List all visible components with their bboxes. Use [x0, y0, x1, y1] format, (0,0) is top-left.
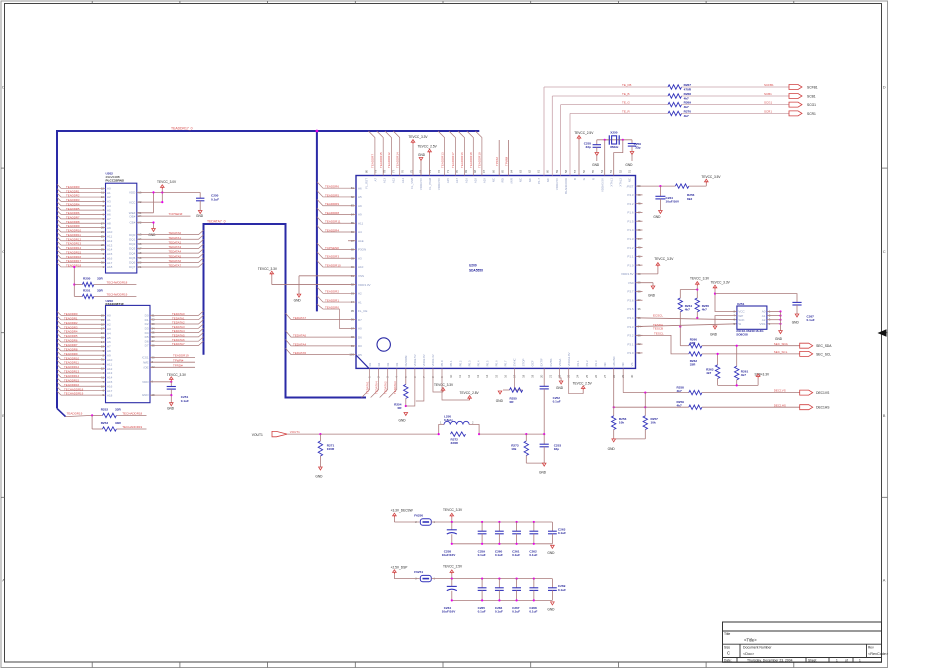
power TEVCC_3.3V left of U200: [258, 267, 356, 285]
svg-text:16: 16: [503, 374, 507, 378]
svg-text:TEVCC_3.3V: TEVCC_3.3V: [167, 373, 187, 377]
wire TEVCC_2.5V ground bus: [451, 599, 553, 601]
svg-text:P3.5: P3.5: [627, 307, 634, 311]
svg-text:TEADDR4: TEADDR4: [325, 228, 339, 232]
svg-text:TEDATA5: TEDATA5: [293, 351, 306, 355]
svg-text:P1.3: P1.3: [627, 237, 634, 241]
U200 bottom pin names and numbers: [368, 352, 635, 378]
svg-text:D6: D6: [358, 335, 362, 339]
U200 top address wires group1: [368, 131, 399, 176]
svg-text:10: 10: [449, 374, 453, 378]
power TEVCC_3.3V pin40: [654, 257, 674, 267]
ground TEVCC_3.3V bank: [547, 545, 555, 555]
title block frame: [723, 622, 882, 662]
svg-text:TECHADDR19: TECHADDR19: [122, 425, 142, 429]
U203 address wires from bus: [57, 311, 106, 395]
svg-text:0.1uF: 0.1uF: [553, 399, 561, 403]
wire riser pin28: [613, 368, 615, 415]
wire SYNC to R255: [514, 368, 522, 390]
net label TE_FB: [622, 83, 631, 87]
U200 bottom data wires to bus: [362, 368, 397, 397]
svg-text:Size: Size: [724, 646, 730, 650]
svg-text:A16: A16: [464, 178, 468, 184]
svg-text:A13: A13: [107, 371, 113, 375]
svg-text:4k7: 4k7: [702, 307, 707, 311]
svg-text:/RST: /RST: [627, 184, 634, 188]
svg-text:HSUSC: HSUSC: [612, 356, 616, 366]
capacitor C260: [495, 522, 504, 557]
connector DEC1HS: [800, 405, 831, 410]
svg-text:GND: GND: [608, 447, 616, 451]
eeprom U251 body: [737, 306, 767, 329]
ground below C255: [592, 153, 600, 168]
wire branch to R253: [92, 415, 102, 429]
svg-text:DEC1HS: DEC1HS: [816, 406, 830, 410]
capacitor C264 reset: [655, 186, 680, 210]
resistor R273: [511, 434, 528, 463]
svg-text:TEDATA7: TEDATA7: [169, 264, 182, 268]
bus TEDATA vertical right: [285, 223, 287, 398]
svg-text:A18: A18: [473, 178, 477, 184]
svg-text:X250: X250: [610, 130, 618, 134]
wire R273 C253 common: [526, 462, 544, 464]
svg-text:0.1uF: 0.1uF: [558, 531, 566, 535]
svg-text:A12: A12: [392, 178, 396, 184]
ASIC U200 body: [356, 176, 636, 369]
power TEVCC_3.0V at U202: [157, 180, 177, 192]
svg-text:58: 58: [564, 169, 568, 173]
svg-text:P0.5: P0.5: [485, 360, 489, 366]
svg-text:DQ7: DQ7: [129, 265, 136, 269]
resistor R264 pullup: [678, 290, 692, 327]
U251 part number text: [736, 329, 764, 336]
svg-text:GND: GND: [592, 163, 600, 167]
svg-text:A3: A3: [107, 327, 111, 331]
svg-text:Title: Title: [724, 632, 730, 636]
net label TE_R: [622, 109, 631, 113]
U202 CE wire to ground: [137, 221, 156, 237]
svg-text:GND: GND: [496, 399, 504, 403]
capacitor C269: [548, 579, 566, 601]
svg-text:4k7: 4k7: [677, 389, 682, 393]
svg-text:95: 95: [351, 309, 355, 313]
svg-text:P0.0: P0.0: [440, 360, 444, 366]
svg-text:TESCB: TESCB: [653, 327, 663, 331]
wire TESCL from pin33: [636, 335, 689, 354]
svg-text:GND: GND: [710, 333, 718, 337]
svg-text:TESCL: TESCL: [654, 332, 664, 336]
net label TE_G: [622, 101, 631, 105]
svg-text:TEVCC_3.3V: TEVCC_3.3V: [258, 267, 278, 271]
svg-text:D7: D7: [358, 318, 362, 322]
svg-text:D: D: [883, 85, 886, 90]
svg-text:VDDA2.8V: VDDA2.8V: [567, 352, 571, 366]
ground above U200: [418, 153, 426, 175]
wire /RST row: [636, 185, 676, 187]
svg-text:DEC1VS: DEC1VS: [816, 391, 830, 395]
svg-text:D5: D5: [358, 353, 362, 357]
capacitor C261: [512, 522, 521, 557]
wire TE_R row: [570, 112, 668, 114]
svg-text:P2.2: P2.2: [585, 360, 589, 366]
capacitor C262: [529, 522, 538, 557]
svg-text:TE_B: TE_B: [622, 92, 630, 96]
svg-text:A4: A4: [107, 331, 111, 335]
svg-text:TEDATA3: TEDATA3: [169, 245, 182, 249]
svg-text:A9: A9: [107, 353, 111, 357]
svg-text:NVROM: NVROM: [404, 355, 408, 366]
U200 wire TEADDR2: [317, 287, 356, 294]
svg-text:A0: A0: [358, 327, 362, 331]
svg-text:470R: 470R: [684, 87, 692, 91]
svg-text:TEADDR8: TEADDR8: [325, 211, 339, 215]
svg-text:A: A: [2, 578, 5, 583]
svg-text:<Title>: <Title>: [744, 638, 757, 643]
svg-text:TEADDR15: TEADDR15: [379, 152, 383, 168]
U200 data wires from TEDATA bus: [286, 313, 357, 355]
svg-text:VDDA3.5V: VDDA3.5V: [600, 178, 604, 192]
svg-text:TE_G: TE_G: [622, 101, 631, 105]
capacitor C251: [167, 382, 189, 403]
svg-text:CVBS: CVBS: [549, 358, 553, 366]
svg-text:53: 53: [609, 169, 613, 173]
U200 wire TPF6#: [495, 140, 499, 176]
resistor R253: [101, 421, 147, 431]
svg-text:P3.7: P3.7: [627, 290, 634, 294]
U203 data wires to bus: [150, 311, 204, 346]
svg-text:VDD2.5V: VDD2.5V: [413, 354, 417, 366]
riser TE_FB: [543, 87, 545, 176]
svg-text:TEDATA1: TEDATA1: [169, 236, 182, 240]
svg-text:4k7: 4k7: [741, 373, 746, 377]
svg-text:DQ4: DQ4: [129, 251, 136, 255]
svg-text:0.1uF: 0.1uF: [529, 610, 537, 614]
U200 index circle: [377, 338, 390, 351]
bus TEADDR vertical left: [56, 130, 58, 408]
svg-text:51: 51: [627, 169, 631, 173]
svg-text:33p: 33p: [635, 146, 640, 150]
svg-text:20: 20: [540, 374, 544, 378]
svg-text:A12: A12: [107, 367, 113, 371]
svg-text:4k7: 4k7: [684, 114, 689, 118]
wire branch A18 to R250 R251: [73, 266, 75, 297]
svg-text:GND: GND: [547, 551, 555, 555]
capacitor C268: [529, 579, 538, 614]
svg-text:R270: R270: [684, 109, 692, 113]
svg-text:0.1uF: 0.1uF: [478, 553, 486, 557]
svg-text:VDD3.5V: VDD3.5V: [555, 178, 559, 190]
svg-text:P3.1: P3.1: [627, 342, 634, 346]
svg-text:TEADDR1: TEADDR1: [325, 298, 339, 302]
capacitor C253: [540, 434, 562, 463]
power TEVCC_3.3V above U200: [408, 135, 428, 175]
U200 bottom data labels: [366, 381, 397, 394]
svg-text:A9: A9: [358, 213, 362, 217]
ground pin39: [648, 286, 656, 298]
resistor R271: [318, 434, 335, 467]
svg-text:55: 55: [591, 169, 595, 173]
svg-text:A17: A17: [107, 389, 113, 393]
svg-text:33R: 33R: [690, 341, 696, 345]
svg-text:P0.7: P0.7: [504, 360, 508, 366]
svg-text:P2.1: P2.1: [576, 360, 580, 366]
svg-text:NC: NC: [628, 178, 632, 182]
resistor R256 reset: [675, 184, 706, 201]
svg-text:64: 64: [509, 169, 513, 173]
svg-text:VSS: VSS: [358, 274, 364, 278]
svg-text:P4.3: P4.3: [627, 193, 634, 197]
svg-text:D4: D4: [377, 362, 381, 366]
connector SCG1: [789, 102, 816, 107]
U203 WE wire: [150, 358, 195, 362]
svg-text:P1.4: P1.4: [627, 228, 634, 232]
svg-text:11: 11: [458, 375, 462, 378]
svg-text:77: 77: [392, 169, 396, 173]
U202 data wires DQ0-DQ7 to bus: [137, 230, 204, 267]
U203 right data pin names: [145, 313, 155, 347]
svg-text:PLCC32RNS: PLCC32RNS: [106, 178, 124, 182]
resistor R269: [668, 101, 789, 109]
bus TEDATA horizontal bottom: [285, 397, 367, 399]
svg-text:GND: GND: [547, 608, 555, 612]
power TEVCC_2.5V above U200: [418, 145, 438, 176]
svg-text:+2.5V_DSP: +2.5V_DSP: [391, 565, 408, 569]
svg-text:33R: 33R: [115, 408, 121, 412]
svg-text:A9: A9: [358, 204, 362, 208]
power +2.5V_DSP arrow: [391, 565, 420, 578]
svg-text:FL_PGM: FL_PGM: [428, 177, 432, 189]
svg-text:63: 63: [518, 169, 522, 173]
svg-text:12: 12: [467, 374, 471, 378]
svg-text:R267: R267: [684, 83, 692, 87]
wire riser pin29 to DEC1VS: [622, 368, 624, 392]
svg-text:SEC_SDA: SEC_SDA: [774, 342, 788, 346]
svg-text:F6250: F6250: [414, 513, 423, 517]
svg-text:15: 15: [494, 374, 498, 378]
svg-text:P2.3: P2.3: [594, 360, 598, 366]
svg-text:TEADDR19: TEADDR19: [478, 152, 482, 168]
U203 net labels: [64, 312, 84, 396]
svg-text:SDA555X: SDA555X: [469, 269, 484, 273]
bus TEADDR17_0 horizontal top: [57, 130, 479, 132]
resistor R262: [689, 352, 800, 367]
svg-text:R250: R250: [83, 276, 91, 280]
svg-text:VS: VS: [630, 362, 634, 366]
svg-text:/RD: /RD: [501, 178, 505, 183]
U203 GND wire: [150, 394, 171, 396]
svg-text:STOP: STOP: [522, 359, 526, 367]
ground below R271: [315, 467, 323, 478]
svg-text:SEC_SCL: SEC_SCL: [816, 352, 831, 356]
svg-text:TEVCC_3.3V: TEVCC_3.3V: [711, 280, 731, 284]
svg-text:TEADDR13: TEADDR13: [64, 370, 79, 374]
U200 top address labels group1: [371, 152, 400, 168]
power +3.3V_DECSW arrow: [391, 509, 420, 522]
U203 pin names A0-A18: [101, 313, 113, 397]
svg-text:0.1uF: 0.1uF: [495, 553, 503, 557]
svg-text:VSSA: VSSA: [558, 359, 562, 367]
svg-text:TEADDR3: TEADDR3: [325, 255, 339, 259]
connector SEC_SCL: [800, 351, 832, 356]
U200 left address wires: [317, 182, 356, 267]
U200 right pin names and numbers: [621, 184, 641, 355]
svg-text:TEADDR10: TEADDR10: [325, 263, 341, 267]
svg-text:A13: A13: [383, 178, 387, 184]
svg-text:10uF/16V: 10uF/16V: [442, 610, 457, 614]
svg-text:TEDATA0: TEDATA0: [169, 231, 182, 235]
svg-text:72: 72: [437, 169, 441, 173]
svg-text:FL_CE: FL_CE: [358, 309, 367, 313]
svg-text:A1: A1: [107, 318, 111, 322]
U200 top pin names and numbers: [364, 169, 631, 193]
svg-text:24: 24: [576, 374, 580, 378]
svg-text:ALE: ALE: [358, 239, 364, 243]
svg-text:TECHWDDR18: TECHWDDR18: [107, 280, 128, 284]
svg-text:TEVCC_3.3V: TEVCC_3.3V: [654, 257, 674, 261]
svg-text:P0.4: P0.4: [476, 360, 480, 366]
svg-text:TECHWDDR19: TECHWDDR19: [107, 292, 128, 296]
svg-text:TEDATA7_0: TEDATA7_0: [207, 219, 226, 223]
svg-text:TECHADDR18: TECHADDR18: [122, 411, 142, 415]
svg-text:B: B: [883, 413, 886, 418]
svg-text:A7: A7: [107, 345, 111, 349]
svg-text:P1.0: P1.0: [627, 263, 634, 267]
resistor R270: [668, 109, 789, 117]
svg-text:8k2: 8k2: [687, 197, 692, 201]
U203 data net labels: [172, 312, 185, 346]
border zone ticks top and bottom: [92, 1, 794, 668]
svg-text:A16: A16: [107, 384, 113, 388]
svg-text:TEADDR10: TEADDR10: [64, 356, 79, 360]
svg-text:R268: R268: [684, 92, 692, 96]
capacitor C255: [584, 140, 601, 153]
net label TE_B: [622, 92, 630, 96]
resistor R254: [394, 368, 408, 410]
power TEVCC_3.5V reset: [701, 175, 721, 186]
svg-text:ECSCL: ECSCL: [653, 314, 663, 318]
svg-text:/WE: /WE: [143, 360, 149, 364]
wire TE_G row: [561, 104, 668, 106]
svg-text:TFWR#: TFWR#: [173, 358, 184, 362]
resistor R250: [74, 276, 136, 286]
wire SDA chain: [680, 327, 689, 346]
svg-text:A17: A17: [455, 178, 459, 184]
ground below R256 R257: [608, 439, 616, 451]
U203 CS wire: [150, 354, 195, 358]
U203 VDD wire: [150, 381, 172, 383]
svg-text:A14: A14: [107, 376, 113, 380]
svg-text:VDD: VDD: [129, 191, 136, 195]
svg-text:6.8uH: 6.8uH: [444, 418, 453, 422]
wire pullup rail: [680, 288, 698, 290]
svg-text:SCFB1: SCFB1: [764, 83, 774, 87]
svg-text:71: 71: [446, 169, 450, 173]
svg-text:VOUT1: VOUT1: [252, 433, 263, 437]
svg-text:NC: NC: [528, 178, 532, 182]
svg-text:TEADDR3: TEADDR3: [64, 325, 78, 329]
crystal X250: [605, 130, 623, 149]
net label TECHWDDR19: [107, 292, 128, 296]
svg-text:36: 36: [638, 307, 642, 311]
net label VOUT1 red: [290, 430, 300, 434]
svg-text:0.1uF: 0.1uF: [512, 610, 520, 614]
svg-text:TECHADDR18: TECHADDR18: [64, 387, 84, 391]
svg-text:SEC_SCL: SEC_SCL: [774, 350, 788, 354]
U200 wire TEADDR1: [317, 296, 356, 303]
svg-text:SYNC: SYNC: [513, 358, 517, 366]
svg-text:NC: NC: [546, 178, 550, 182]
ground TEVCC_2.5V bank: [547, 602, 555, 612]
svg-text:NC: NC: [621, 362, 625, 366]
net label SCFB1 red: [764, 83, 774, 87]
svg-text:A11: A11: [358, 221, 363, 225]
svg-text:of: of: [845, 658, 848, 662]
svg-text:R252: R252: [101, 408, 109, 412]
svg-text:FL_VSB: FL_VSB: [410, 178, 414, 189]
svg-text:4k7: 4k7: [677, 404, 682, 408]
svg-text:TEVCC_2.5V: TEVCC_2.5V: [418, 145, 438, 149]
svg-text:A6: A6: [358, 186, 362, 190]
U202 pin names A0-A18: [101, 186, 113, 269]
U200 VDD2.8V bottom wire: [416, 368, 424, 401]
svg-text:P3.2: P3.2: [627, 334, 634, 338]
svg-text:NC: NC: [603, 362, 607, 366]
resistor R263: [706, 353, 720, 386]
bus label TEADDR17_0: [171, 126, 193, 130]
capacitor C259: [478, 522, 487, 557]
U202 OE wire TCPSEN#: [137, 212, 191, 216]
net label SCG1 red: [764, 101, 773, 105]
svg-text:A5: A5: [107, 336, 111, 340]
connector SCB1: [789, 94, 816, 99]
power TEVCC_2.8V bottom: [442, 368, 480, 400]
capacitor C258 bulk: [442, 522, 457, 557]
svg-text:10uF/16V: 10uF/16V: [666, 200, 681, 204]
power TEVCC_2.5V bottom right: [569, 368, 593, 393]
capacitor C264 bulk: [442, 579, 457, 614]
svg-text:VDD3.3V: VDD3.3V: [431, 354, 435, 366]
svg-text:TEADDR2: TEADDR2: [64, 321, 78, 325]
svg-text:56: 56: [582, 169, 586, 173]
svg-text:P1.6: P1.6: [627, 211, 634, 215]
svg-text:54: 54: [600, 169, 604, 173]
wire TEADDR19 row: [66, 414, 103, 416]
svg-text:TPWM: TPWM: [504, 156, 508, 166]
wire TE_B row: [552, 95, 668, 97]
svg-text:C: C: [727, 651, 730, 656]
svg-text:D2: D2: [386, 362, 390, 366]
svg-text:A4: A4: [358, 230, 362, 234]
svg-text:SI: SI: [738, 322, 741, 326]
svg-text:33R: 33R: [690, 362, 696, 366]
sram U203 body: [106, 305, 151, 402]
capacitor C267: [512, 579, 521, 614]
svg-text:DQ6: DQ6: [129, 261, 136, 265]
svg-text:TEDATA5: TEDATA5: [169, 254, 182, 258]
svg-text:D7: D7: [145, 344, 149, 348]
svg-text:VDD3.5V: VDD3.5V: [621, 272, 634, 276]
svg-text:A8: A8: [107, 349, 111, 353]
svg-text:DQ1: DQ1: [129, 237, 136, 241]
C267 labels: [807, 314, 815, 322]
svg-text:GND: GND: [539, 471, 547, 475]
svg-text:A1: A1: [358, 300, 362, 304]
svg-text:P3.0: P3.0: [627, 351, 634, 355]
net label TESCB: [653, 327, 663, 331]
svg-text:TEADDR6: TEADDR6: [64, 339, 78, 343]
svg-text:DQ2: DQ2: [129, 242, 136, 246]
svg-text:B: B: [573, 178, 577, 180]
